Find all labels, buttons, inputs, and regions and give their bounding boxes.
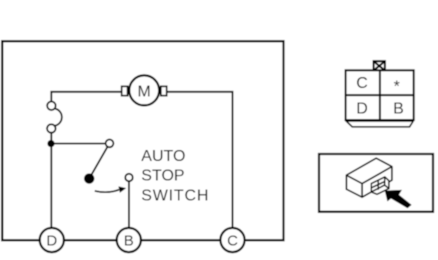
connector symbol arc — [55, 109, 62, 126]
module icon: pointer arrow — [385, 190, 412, 208]
switch lever end dot — [84, 173, 94, 183]
connector pinout: base lip — [346, 121, 413, 127]
motor M left brush — [122, 86, 128, 95]
switch lever arm — [89, 147, 107, 178]
motor M right brush — [161, 86, 167, 95]
wire: connector to junction and terminal D — [50, 133, 52, 229]
svg-text:B: B — [393, 101, 404, 118]
connector pinout: lock tab (crossed square) — [374, 61, 385, 70]
wire: motor to terminal C — [167, 92, 233, 229]
terminal D — [40, 228, 64, 252]
switch contact to B — [125, 174, 133, 182]
svg-text:STOP: STOP — [141, 168, 184, 185]
module icon: connector block — [371, 177, 389, 194]
svg-text:C: C — [227, 232, 238, 249]
switch motion arrow — [95, 190, 119, 192]
wire: switch contact to terminal B — [128, 181, 130, 228]
svg-text:D: D — [46, 232, 57, 249]
svg-text:B: B — [124, 232, 134, 249]
svg-text:D: D — [356, 101, 368, 118]
svg-text:*: * — [394, 79, 400, 96]
wire: junction to switch pivot — [51, 143, 105, 145]
connector symbol lower circle — [47, 124, 56, 133]
connector symbol upper circle — [47, 102, 56, 111]
module icon: outer box — [319, 154, 433, 212]
switch pivot contact — [106, 140, 114, 148]
connector pinout: outer box — [346, 70, 414, 120]
frame: main circuit box — [2, 41, 283, 240]
terminal C — [220, 228, 244, 252]
wire: left supply from connector to motor — [51, 92, 122, 102]
motor M body — [129, 75, 159, 105]
svg-text:C: C — [356, 75, 368, 92]
terminal B — [117, 228, 141, 252]
junction node — [47, 140, 54, 147]
module icon: relay body — [346, 158, 392, 197]
svg-text:SWITCH: SWITCH — [141, 187, 209, 204]
svg-text:AUTO: AUTO — [141, 148, 185, 165]
svg-text:M: M — [138, 83, 151, 100]
connector pinout: dividers — [379, 70, 381, 120]
